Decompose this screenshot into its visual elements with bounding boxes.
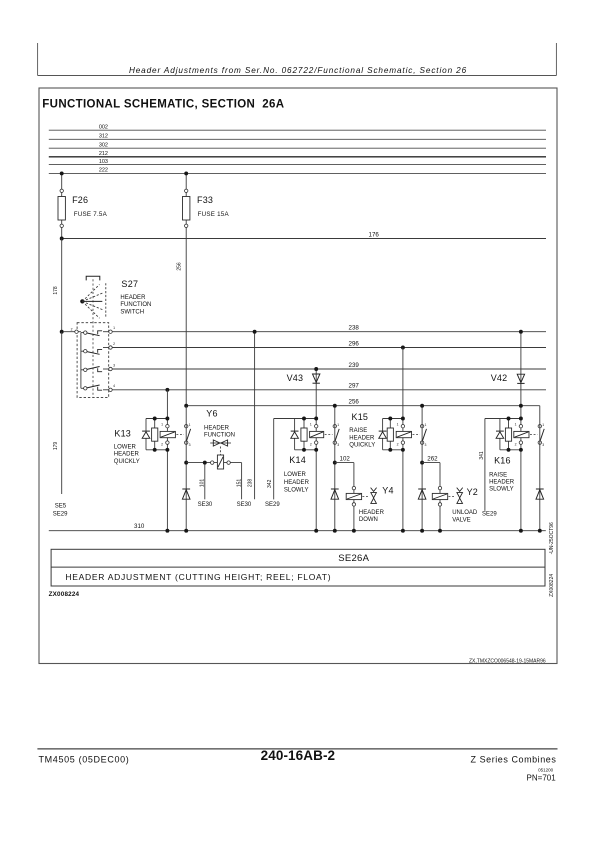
svg-text:3: 3 bbox=[337, 443, 339, 447]
relay K16 contact bbox=[538, 425, 541, 428]
svg-text:312: 312 bbox=[99, 134, 108, 140]
svg-text:1: 1 bbox=[310, 422, 312, 426]
svg-text:FUNCTION: FUNCTION bbox=[120, 302, 151, 308]
junction 102 bbox=[333, 461, 337, 465]
junction rail 310 bbox=[401, 529, 405, 533]
junction F26/wire176 bbox=[60, 237, 64, 241]
junction rail 310 bbox=[420, 529, 424, 533]
svg-text:UNLOAD: UNLOAD bbox=[452, 510, 478, 516]
wire 310 bbox=[49, 530, 546, 532]
switch S27 input terminal bbox=[64, 331, 81, 333]
svg-text:2: 2 bbox=[397, 442, 399, 446]
solenoid Y2 valve symbol bbox=[449, 496, 456, 498]
svg-text:SLOWLY: SLOWLY bbox=[284, 487, 309, 493]
switch S27 contact row 3 bbox=[81, 369, 84, 371]
svg-text:1: 1 bbox=[397, 422, 399, 426]
svg-text:3: 3 bbox=[113, 363, 115, 367]
wire 342 to SE29 bbox=[273, 419, 275, 500]
svg-text:3: 3 bbox=[542, 443, 544, 447]
svg-text:178: 178 bbox=[53, 286, 59, 295]
svg-text:Y2: Y2 bbox=[467, 487, 478, 497]
switch S27 common bar bbox=[80, 333, 82, 389]
junction rail 310 bbox=[519, 529, 523, 533]
bus wire 222 bbox=[49, 172, 546, 174]
page header rule right tick bbox=[555, 43, 557, 76]
svg-text:256: 256 bbox=[349, 399, 360, 406]
switch S27 rotor arm bbox=[82, 300, 102, 302]
diode K15 suppression bbox=[418, 488, 426, 490]
switch S27 contact row 2 bbox=[81, 350, 84, 352]
solenoid Y6 valve symbol bbox=[210, 442, 231, 444]
svg-text:HEADER ADJUSTMENT (CUTTING HEI: HEADER ADJUSTMENT (CUTTING HEIGHT; REEL;… bbox=[65, 572, 331, 582]
diode V42 bbox=[517, 374, 524, 382]
svg-text:002: 002 bbox=[99, 124, 108, 130]
wire bus222 to F26 bbox=[61, 173, 63, 238]
svg-text:3: 3 bbox=[425, 443, 427, 447]
junction 262 bbox=[420, 461, 424, 465]
svg-text:ZX008224: ZX008224 bbox=[549, 574, 555, 597]
diode V43 wire bbox=[315, 369, 317, 531]
svg-text:Z Series Combines: Z Series Combines bbox=[471, 754, 557, 764]
wire 179 bbox=[61, 332, 63, 494]
relay K13 contact bbox=[185, 425, 188, 428]
svg-text:HEADER: HEADER bbox=[489, 480, 515, 486]
svg-text:051200: 051200 bbox=[538, 768, 554, 773]
switch S27 position rays bbox=[82, 285, 99, 302]
wire K15 contact drop bbox=[421, 406, 423, 531]
solenoid Y2 bbox=[439, 463, 441, 531]
svg-text:151: 151 bbox=[237, 479, 243, 488]
svg-text:310: 310 bbox=[134, 523, 145, 530]
svg-text:297: 297 bbox=[349, 383, 360, 390]
wire 296 bbox=[112, 347, 546, 349]
svg-text:296: 296 bbox=[349, 340, 360, 347]
junction bus222/F33 bbox=[184, 171, 188, 175]
svg-text:QUICKLY: QUICKLY bbox=[114, 459, 140, 465]
svg-text:SE5: SE5 bbox=[55, 503, 67, 509]
svg-text:212: 212 bbox=[99, 151, 108, 157]
svg-text:-UN-25OCT96: -UN-25OCT96 bbox=[549, 522, 555, 554]
junction rail 310 bbox=[165, 529, 169, 533]
switch S27 actuator dashed link bbox=[92, 279, 94, 397]
svg-text:342: 342 bbox=[267, 479, 273, 488]
switch S27 position arc dashed bbox=[105, 283, 107, 317]
fuse F33 bbox=[183, 197, 190, 221]
svg-text:262: 262 bbox=[427, 455, 438, 462]
svg-text:HEADER: HEADER bbox=[204, 425, 230, 431]
wire K16 contact drop bbox=[539, 406, 541, 531]
svg-text:K16: K16 bbox=[494, 456, 511, 466]
wire K13 coil feed bbox=[166, 390, 168, 531]
wire 151 to SE30 bbox=[241, 463, 243, 500]
svg-text:SE30: SE30 bbox=[198, 502, 213, 508]
svg-text:1: 1 bbox=[425, 423, 427, 427]
wire 341 to SE29 bbox=[484, 419, 486, 511]
svg-text:V43: V43 bbox=[287, 373, 304, 383]
diode V43 bbox=[313, 374, 320, 382]
schematic frame bbox=[39, 88, 557, 664]
wire 296 to K15 junction bbox=[401, 346, 405, 350]
wire 297 to K13 junction bbox=[165, 388, 169, 392]
svg-text:2: 2 bbox=[113, 342, 115, 346]
svg-text:PN=701: PN=701 bbox=[527, 774, 557, 783]
switch S27 contact box bbox=[77, 323, 109, 398]
junction wire256/V42 bbox=[519, 404, 523, 408]
svg-text:103: 103 bbox=[99, 159, 108, 165]
wire 178 bbox=[61, 239, 63, 332]
svg-text:SE29: SE29 bbox=[482, 511, 497, 517]
switch S27 detent bracket bbox=[86, 276, 100, 280]
svg-text:S27: S27 bbox=[121, 279, 138, 289]
svg-text:1: 1 bbox=[113, 326, 115, 330]
wire bus222 to F33 bbox=[185, 173, 187, 238]
svg-text:ZX,TMXZCO006548-19-15MAR96: ZX,TMXZCO006548-19-15MAR96 bbox=[469, 658, 546, 664]
junction bus222/F26 bbox=[60, 171, 64, 175]
svg-text:K14: K14 bbox=[289, 455, 306, 465]
svg-text:302: 302 bbox=[99, 142, 108, 148]
svg-text:FUSE 7.5A: FUSE 7.5A bbox=[74, 211, 108, 218]
section box SE26A bbox=[51, 549, 545, 586]
svg-text:1: 1 bbox=[337, 423, 339, 427]
svg-text:239: 239 bbox=[349, 362, 360, 369]
svg-text:HEADER: HEADER bbox=[114, 452, 140, 458]
relay K14 coil assembly bbox=[274, 418, 317, 420]
footer rule bbox=[37, 748, 557, 750]
diode V42 wire bbox=[520, 332, 522, 531]
svg-text:238: 238 bbox=[349, 325, 360, 332]
svg-text:VALVE: VALVE bbox=[452, 517, 470, 523]
svg-text:V42: V42 bbox=[491, 373, 508, 383]
wire K15 coil feed bbox=[402, 348, 404, 531]
diode K14 suppression bbox=[331, 488, 339, 490]
svg-text:4: 4 bbox=[113, 384, 115, 388]
svg-text:LOWER: LOWER bbox=[284, 472, 307, 478]
svg-text:HEADER: HEADER bbox=[359, 510, 385, 516]
svg-text:101: 101 bbox=[199, 479, 205, 488]
svg-text:1: 1 bbox=[189, 423, 191, 427]
svg-text:179: 179 bbox=[53, 442, 59, 451]
svg-text:F33: F33 bbox=[197, 195, 213, 205]
junction rail 310 bbox=[538, 529, 542, 533]
svg-text:DOWN: DOWN bbox=[359, 517, 378, 523]
bus wire 302 bbox=[49, 147, 546, 149]
svg-text:ZX008224: ZX008224 bbox=[49, 591, 80, 598]
junction wire256/F33 drop bbox=[184, 404, 188, 408]
wire 238 drop to SE30 bbox=[254, 332, 256, 500]
page header underline bbox=[38, 75, 557, 77]
svg-text:HEADER: HEADER bbox=[284, 480, 310, 486]
svg-text:Y6: Y6 bbox=[206, 408, 217, 418]
svg-text:102: 102 bbox=[340, 455, 351, 462]
wire 256 horizontal bbox=[186, 405, 540, 407]
svg-text:Header Adjustments from Ser.No: Header Adjustments from Ser.No. 062722/F… bbox=[129, 66, 467, 75]
svg-text:K15: K15 bbox=[352, 412, 369, 422]
svg-text:SLOWLY: SLOWLY bbox=[489, 486, 514, 492]
svg-text:341: 341 bbox=[479, 451, 485, 460]
bus wire 002 bbox=[49, 129, 546, 131]
wire K13 contact to Y6 bbox=[185, 406, 187, 531]
wire 238 bbox=[112, 331, 546, 333]
svg-text:K13: K13 bbox=[114, 429, 131, 439]
wire 102 bbox=[335, 462, 354, 464]
svg-text:HEADER: HEADER bbox=[120, 295, 146, 301]
junction Y6 left bbox=[184, 461, 188, 465]
solenoid Y6 coil bbox=[217, 455, 223, 469]
svg-text:256: 256 bbox=[176, 262, 182, 271]
diode K13 suppression bbox=[182, 488, 190, 490]
relay K13 coil assembly bbox=[146, 418, 167, 420]
junction rail 310 bbox=[333, 529, 337, 533]
svg-text:Y4: Y4 bbox=[382, 486, 393, 496]
fuse F26 bbox=[58, 197, 65, 221]
svg-text:LOWER: LOWER bbox=[114, 444, 137, 450]
wire 256 vertical from F33 bbox=[185, 239, 187, 406]
svg-text:176: 176 bbox=[369, 231, 380, 238]
relay K16 coil assembly bbox=[485, 418, 521, 420]
svg-text:RAISE: RAISE bbox=[349, 428, 367, 434]
wire 262 bbox=[422, 462, 440, 464]
svg-text:2: 2 bbox=[310, 442, 312, 446]
wire 176 bbox=[62, 238, 546, 240]
junction rail 310 bbox=[314, 529, 318, 533]
svg-text:SE26A: SE26A bbox=[338, 553, 369, 564]
relay K15 contact bbox=[420, 425, 423, 428]
wire 297 bbox=[112, 389, 546, 391]
node S27 feed junction bbox=[60, 330, 64, 334]
svg-text:FUNCTION: FUNCTION bbox=[204, 433, 235, 439]
svg-text:HEADER: HEADER bbox=[349, 435, 375, 441]
junction rail 310 bbox=[352, 529, 356, 533]
wire 239 bbox=[112, 368, 546, 370]
svg-text:SE29: SE29 bbox=[53, 511, 68, 517]
svg-text:RAISE: RAISE bbox=[489, 472, 507, 478]
svg-text:2: 2 bbox=[515, 442, 517, 446]
junction rail 310 bbox=[438, 529, 442, 533]
svg-text:FUSE 15A: FUSE 15A bbox=[198, 211, 230, 218]
svg-text:222: 222 bbox=[99, 168, 108, 174]
svg-text:238: 238 bbox=[248, 479, 254, 488]
svg-text:240-16AB-2: 240-16AB-2 bbox=[261, 748, 336, 763]
wire K14 contact drop bbox=[334, 406, 336, 531]
page header rule left tick bbox=[37, 43, 39, 76]
bus wire 103 bbox=[49, 164, 546, 166]
relay K14 contact bbox=[333, 425, 336, 428]
svg-text:3: 3 bbox=[189, 443, 191, 447]
svg-text:2: 2 bbox=[161, 442, 163, 446]
solenoid Y6 feed wire bbox=[186, 462, 241, 464]
switch S27 contact row 4 bbox=[81, 387, 84, 389]
bus wire 212 bbox=[49, 156, 546, 158]
svg-text:SWITCH: SWITCH bbox=[120, 310, 144, 316]
svg-text:1: 1 bbox=[161, 422, 163, 426]
diode K16 suppression bbox=[536, 488, 544, 490]
svg-text:SE29: SE29 bbox=[265, 502, 280, 508]
bus wire 312 bbox=[49, 138, 546, 140]
solenoid Y4 valve symbol bbox=[362, 496, 369, 498]
svg-text:TM4505 (05DEC00): TM4505 (05DEC00) bbox=[39, 754, 130, 764]
wire 101 drop to SE30 bbox=[204, 463, 206, 500]
solenoid Y4 bbox=[353, 463, 355, 531]
svg-text:SE30: SE30 bbox=[237, 502, 252, 508]
svg-text:2: 2 bbox=[71, 328, 73, 332]
svg-text:1: 1 bbox=[542, 423, 544, 427]
switch S27 contact row 1 bbox=[81, 332, 84, 334]
svg-text:FUNCTIONAL SCHEMATIC, SECTION: FUNCTIONAL SCHEMATIC, SECTION 26A bbox=[42, 99, 284, 111]
junction rail 310 bbox=[184, 529, 188, 533]
relay K15 coil assembly bbox=[383, 418, 403, 420]
svg-text:1: 1 bbox=[515, 422, 517, 426]
svg-text:F26: F26 bbox=[72, 195, 88, 205]
svg-text:QUICKLY: QUICKLY bbox=[349, 442, 375, 448]
